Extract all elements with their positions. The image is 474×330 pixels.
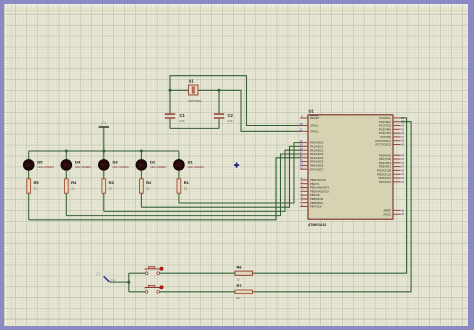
svg-text:R2: R2 (146, 180, 152, 185)
resistor R7 (235, 290, 253, 294)
svg-text:X1: X1 (189, 79, 195, 84)
svg-text:AVCC: AVCC (383, 212, 391, 216)
svg-text:22: 22 (237, 296, 241, 300)
wire: R2 down (140, 193, 142, 207)
ground terminal (rotated) with label (96, 271, 117, 282)
svg-text:19: 19 (401, 173, 404, 176)
svg-text:PB7/SCK: PB7/SCK (310, 205, 322, 209)
svg-text:PD7/OC2: PD7/OC2 (379, 180, 391, 184)
svg-text:ATMEGA32: ATMEGA32 (308, 223, 326, 227)
wire: D4 cathode to R4 (65, 170, 67, 179)
pin PD7/OC2 (pin 21) right (379, 180, 405, 184)
resistor R3 (102, 179, 106, 193)
junction: rail at D4 (65, 150, 68, 153)
junction: crystal right node (218, 89, 221, 92)
wire: R1 to PA0 (179, 143, 301, 203)
wire: bottom rail C1-C2 (170, 127, 219, 129)
wire: rail to D1 (178, 151, 180, 160)
sheet edge line left (11, 4, 12, 319)
resistor R1 (177, 179, 181, 193)
svg-text:22: 22 (71, 187, 75, 191)
resistor R4 (64, 179, 68, 193)
resistor R2 (140, 179, 144, 193)
wire: button SW1 to resistor (160, 272, 235, 274)
wire: C2 bottom (218, 119, 220, 128)
svg-text:C1: C1 (180, 113, 186, 118)
LED D3 (LED-GREEN) (98, 160, 109, 171)
pin PD3/INT1 (pin 17) right (379, 165, 405, 169)
wire: R4 to PA3 (66, 154, 300, 216)
junction: rail at D3 / power (102, 150, 105, 153)
pin AVCC (pin 30) right (383, 212, 404, 216)
button SW1 push button (145, 267, 163, 275)
svg-text:min: min (110, 278, 116, 283)
svg-text:22: 22 (109, 187, 113, 191)
capacitor C1 (165, 113, 175, 118)
svg-text:R1: R1 (184, 180, 190, 185)
sheet edge line top (4, 10, 468, 11)
pin PD1/TXD (pin 15) right (379, 157, 404, 161)
junction: button common (127, 281, 130, 284)
svg-text:22: 22 (34, 187, 38, 191)
pin XTAL2 (pin 12) left (300, 129, 319, 134)
LED D5 (LED-GREEN) (23, 160, 34, 171)
pin PA5/ADC5 (pin 35) left (300, 159, 324, 164)
pin PC0/SCL (pin 22) right (379, 116, 404, 120)
wire: left of button SW2 (129, 291, 145, 293)
svg-text:LED-GREEN: LED-GREEN (37, 165, 53, 169)
LED D1 (LED-GREEN) (174, 160, 185, 171)
junction: crystal left node (169, 89, 172, 92)
svg-text:2nF: 2nF (180, 119, 185, 123)
svg-text:D1: D1 (188, 159, 194, 164)
svg-text:22: 22 (184, 187, 188, 191)
wire: power stem (103, 128, 105, 151)
pin PC7/TOSC2 (pin 29) right (376, 143, 405, 147)
svg-text:PA7/ADC7: PA7/ADC7 (310, 167, 324, 171)
sheet inner light band top (4, 4, 467, 6)
wire: PC0 to R6 (253, 118, 407, 273)
pin PB3/AIN1/OC0 (pin 4) left (300, 189, 329, 194)
svg-text:XTAL1: XTAL1 (310, 124, 319, 128)
wire: button SW2 to resistor (160, 291, 235, 293)
LED D2 (LED-GREEN) (136, 160, 147, 171)
wire: right node down to C2 (218, 90, 220, 113)
svg-text:R7: R7 (237, 283, 243, 288)
wire: LED anode rail (29, 150, 179, 152)
resistor R5 (27, 179, 31, 193)
pin PC1/SDA (pin 23) right (379, 120, 405, 124)
origin marker (blue cross) (233, 162, 240, 169)
svg-text:R4: R4 (71, 180, 77, 185)
pin PA0/ADC0 (pin 40) left (300, 140, 324, 145)
button SW2 push button (145, 285, 163, 293)
pin PA6/ADC6 (pin 34) left (300, 163, 324, 168)
svg-text:R3: R3 (109, 180, 115, 185)
sheet edge line bottom (4, 318, 468, 319)
crystal X1 (189, 85, 198, 95)
pin PA4/ADC4 (pin 36) left (300, 155, 324, 160)
pin PD5/OC1A (pin 19) right (377, 172, 404, 176)
svg-text:D3: D3 (113, 159, 119, 164)
svg-text:27: 27 (401, 136, 404, 139)
frame border top (0, 0, 474, 4)
svg-text:22: 22 (237, 278, 241, 282)
wire: left node down to C1 (169, 90, 171, 113)
pin PB6/MISO (pin 7) left (300, 200, 324, 205)
pin PB1/T1 (pin 2) left (300, 181, 319, 186)
wire: D3 cathode to R3 (103, 170, 105, 179)
wire: terminal feed (110, 281, 129, 283)
wire: C1 bottom (169, 119, 171, 128)
pin PB4/SS (pin 5) left (300, 192, 320, 197)
frame border right (468, 0, 474, 330)
wire: rail to D5 (28, 151, 30, 160)
resistor R6 (235, 271, 253, 275)
svg-text:D4: D4 (75, 159, 81, 164)
svg-text:26: 26 (401, 132, 404, 135)
pin PC5/TDI (pin 27) right (380, 135, 404, 139)
wire: button common vertical (128, 273, 130, 292)
pin PD4/OC1B (pin 18) right (377, 169, 404, 173)
wire: crystal to right node (198, 89, 219, 91)
svg-text:CRYSTAL: CRYSTAL (188, 99, 202, 103)
wire: rail to D3 (103, 151, 105, 160)
wire: D1 cathode to R1 (178, 170, 180, 179)
wire: rail to D2 (140, 151, 142, 160)
svg-text:LED-GREEN: LED-GREEN (113, 165, 129, 169)
pin AREF (pin 32) right (384, 209, 405, 213)
junction: rail at D2 (140, 150, 143, 153)
frame border bottom (0, 326, 474, 330)
wire: R5 down (28, 193, 30, 220)
pin PD2/INT0 (pin 16) right (379, 161, 405, 165)
svg-text:LED-GREEN: LED-GREEN (188, 165, 204, 169)
wire: R3 to PA2 (104, 150, 301, 211)
pin PA3/ADC3 (pin 37) left (300, 151, 324, 156)
svg-text:2nF: 2nF (228, 119, 233, 123)
wire: R5 to PA4 (29, 158, 301, 220)
op-amp substitute: microcontroller U1 ATMEGA32 body (308, 115, 393, 219)
pin RESET (pin 9) left (300, 115, 319, 120)
pin PC4/TDO (pin 26) right (379, 131, 405, 135)
wire: PC1 to R7 (253, 122, 412, 292)
svg-text:PC7/TOSC2: PC7/TOSC2 (376, 143, 392, 147)
wire: rail to D4 (65, 151, 67, 160)
wire: crystal top rail to XTAL1 (170, 76, 301, 126)
capacitor C2 (214, 113, 224, 118)
pin PC2/TCK (pin 24) right (379, 124, 404, 128)
wire: D5 cathode to R5 (28, 170, 30, 179)
wire: D2 cathode to R2 (140, 170, 142, 179)
pin PC3/TMS (pin 25) right (379, 127, 405, 131)
svg-text:R5: R5 (34, 180, 40, 185)
pin PB5/MOSI (pin 6) left (300, 196, 323, 201)
pin PC6/TOSC1 (pin 28) right (376, 139, 405, 143)
wire: left node to crystal (170, 89, 188, 91)
sheet inner light band left (4, 4, 7, 326)
svg-text:D5: D5 (37, 159, 43, 164)
svg-text:U1: U1 (309, 109, 315, 114)
wire: R3 down (103, 193, 105, 211)
svg-text:D2: D2 (150, 159, 156, 164)
svg-text:C2: C2 (228, 113, 234, 118)
svg-text:RESET: RESET (310, 116, 320, 120)
pin PA2/ADC2 (pin 38) left (300, 148, 324, 153)
wire: crystal right node to XTAL2 (219, 90, 301, 131)
wire: R2 to PA1 (141, 146, 300, 207)
wire: left of button SW1 (129, 272, 145, 274)
pin PB0/T0/XCK (pin 1) left (300, 177, 326, 182)
power terminal +5V (99, 122, 109, 127)
svg-text:XTAL2: XTAL2 (310, 129, 319, 133)
svg-text:LED-GREEN: LED-GREEN (150, 165, 166, 169)
pin XTAL1 (pin 13) left (300, 123, 319, 128)
wire: R1 down (178, 193, 180, 203)
pin PA1/ADC1 (pin 39) left (300, 144, 324, 149)
wire: R4 down (65, 193, 67, 215)
svg-text:22: 22 (146, 187, 150, 191)
pin PB2/AIN0/INT2 (pin 3) left (300, 185, 329, 190)
LED D4 (LED-GREEN) (61, 160, 72, 171)
pin PA7/ADC7 (pin 33) left (300, 167, 324, 172)
pin PB7/SCK (pin 8) left (300, 204, 322, 209)
svg-text:R6: R6 (237, 265, 243, 270)
pin PD6/ICP1 (pin 20) right (379, 176, 405, 180)
pin PD0/RXD (pin 14) right (379, 153, 405, 157)
svg-text:LED-GREEN: LED-GREEN (75, 165, 91, 169)
frame border left (0, 0, 4, 330)
